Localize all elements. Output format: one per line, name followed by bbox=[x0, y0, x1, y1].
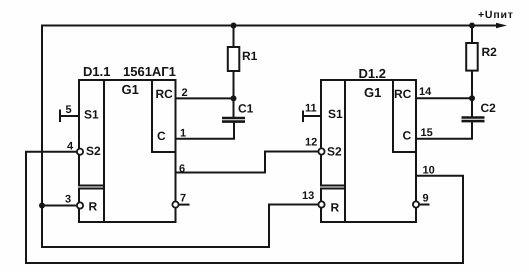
arrow head +Uпит terminal bbox=[496, 23, 507, 29]
svg-text:C: C bbox=[157, 129, 166, 143]
svg-text:1561АГ1: 1561АГ1 bbox=[123, 64, 176, 79]
svg-text:R1: R1 bbox=[242, 49, 258, 63]
svg-text:11: 11 bbox=[305, 103, 317, 115]
IC D1.2 right field RC/C bbox=[393, 80, 416, 152]
inverting bubble R pin 13 of D1.2 bbox=[318, 201, 324, 207]
svg-text:R: R bbox=[331, 201, 340, 215]
terminator tick pin 5 bbox=[59, 111, 61, 122]
junction node top rail / R1 bbox=[231, 23, 237, 29]
IC D1.1 left field R bbox=[79, 189, 104, 223]
svg-text:C2: C2 bbox=[481, 101, 497, 115]
svg-text:13: 13 bbox=[302, 190, 314, 202]
svg-text:7: 7 bbox=[180, 193, 186, 205]
inverting bubble S2 pin 4 of D1.1 bbox=[77, 149, 83, 155]
wire R1 branch from top rail through resistor to C1 top plate bbox=[233, 26, 235, 48]
wire pin 5 input stub S1 of D1.1 bbox=[60, 115, 79, 117]
svg-text:2: 2 bbox=[182, 87, 188, 99]
svg-text:10: 10 bbox=[423, 165, 435, 177]
svg-text:4: 4 bbox=[67, 141, 74, 153]
wire pin 14 RC of D1.2 to R2/C2 junction bbox=[416, 97, 472, 99]
wire pin 6 of D1.1 to pin 12 (S2) of D1.2 bbox=[176, 152, 318, 173]
wire pin 11 input stub S1 of D1.2 bbox=[303, 115, 321, 117]
wire pin 1 C of D1.1 up to C1 bottom plate bbox=[176, 123, 235, 139]
svg-text:D1.1: D1.1 bbox=[83, 64, 110, 79]
IC D1.2 left field R bbox=[321, 189, 345, 223]
svg-text:G1: G1 bbox=[364, 85, 381, 100]
IC D1.1 right field RC/C bbox=[152, 80, 176, 152]
svg-text:15: 15 bbox=[421, 127, 433, 139]
wire pin 2 RC of D1.1 to R1/C1 junction bbox=[176, 97, 234, 99]
junction node RC pin 14 / R2 / C2 bbox=[469, 95, 475, 101]
svg-text:+Uпит: +Uпит bbox=[478, 9, 514, 21]
capacitor C2 bbox=[462, 118, 485, 122]
svg-text:S1: S1 bbox=[84, 108, 99, 122]
svg-text:D1.2: D1.2 bbox=[359, 66, 386, 81]
svg-text:3: 3 bbox=[65, 194, 71, 206]
svg-text:R: R bbox=[89, 200, 98, 214]
wire pin 15 C of D1.2 up to C2 bottom plate bbox=[416, 123, 472, 139]
svg-text:S1: S1 bbox=[328, 107, 343, 121]
wire top power rail +Uпит bbox=[42, 25, 502, 27]
svg-text:RC: RC bbox=[156, 87, 174, 101]
wire feedback net: S2 pin 4 of D1.1 left, down, bottom run, up to pin 10 of D1.2 bbox=[26, 152, 463, 263]
junction node R net / pin 3 bbox=[39, 203, 45, 209]
svg-text:14: 14 bbox=[419, 86, 432, 98]
inverting bubble S2 pin 12 of D1.2 bbox=[318, 148, 324, 154]
wire pin 3 junction to R input of D1.1 bbox=[42, 205, 77, 207]
inverting bubble output pin 9 of D1.2 bbox=[413, 201, 419, 207]
svg-text:S2: S2 bbox=[86, 144, 101, 158]
svg-text:6: 6 bbox=[179, 163, 185, 175]
IC D1.2 left field S1/S2 bbox=[321, 80, 345, 186]
svg-text:S2: S2 bbox=[327, 145, 342, 159]
resistor R2 bbox=[466, 43, 478, 71]
junction node top rail / R2 bbox=[469, 23, 475, 29]
wire R2 branch from top rail through resistor to C2 top plate bbox=[471, 26, 473, 44]
op-amp U1: IC D1.1 monostable 1561АГ1 main field bbox=[79, 80, 176, 222]
wire left vertical R net: top rail to pin 3 junction, down and right to pin 13 of D1.2 bbox=[42, 26, 318, 248]
IC D1.1 left field S1/S2 bbox=[79, 80, 104, 186]
inverting bubble R pin 3 of D1.1 bbox=[77, 202, 83, 208]
op-amp U2: IC D1.2 monostable main field bbox=[321, 80, 416, 222]
svg-text:12: 12 bbox=[305, 137, 317, 149]
capacitor C1 bbox=[222, 118, 245, 122]
resistor R1 bbox=[228, 47, 240, 71]
svg-text:C: C bbox=[403, 129, 412, 143]
inverting bubble output pin 7 of D1.1 bbox=[172, 202, 178, 208]
svg-text:G1: G1 bbox=[122, 82, 139, 97]
terminator tick pin 11 bbox=[302, 112, 304, 122]
svg-text:R2: R2 bbox=[482, 45, 498, 59]
svg-text:RC: RC bbox=[394, 87, 412, 101]
junction node RC pin 2 / R1 / C1 bbox=[231, 95, 237, 101]
wire pin 9 output stub of D1.2 bbox=[419, 204, 428, 206]
svg-text:C1: C1 bbox=[238, 102, 254, 116]
svg-text:5: 5 bbox=[66, 104, 72, 116]
svg-text:1: 1 bbox=[180, 128, 186, 140]
svg-text:9: 9 bbox=[423, 193, 429, 205]
wire pin 7 output stub of D1.1 bbox=[179, 204, 189, 206]
